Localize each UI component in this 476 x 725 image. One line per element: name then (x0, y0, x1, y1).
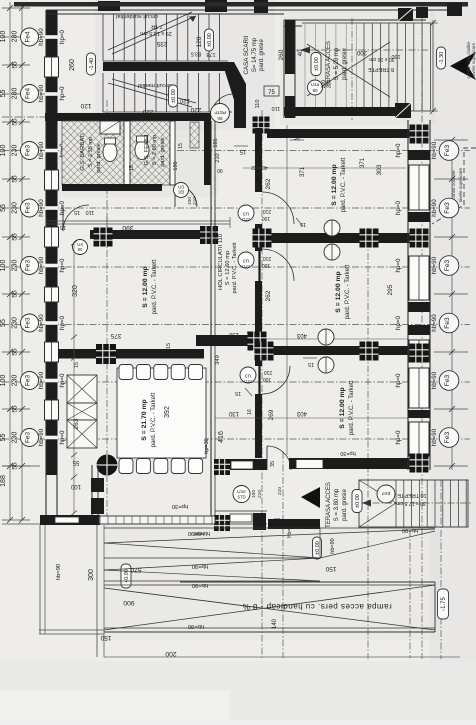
svg-text:80: 80 (78, 247, 83, 252)
svg-text:262: 262 (265, 178, 272, 189)
svg-text:pard. gresie: pard. gresie (342, 47, 348, 79)
svg-text:1/B: 1/B (178, 190, 184, 195)
svg-text:55: 55 (12, 233, 19, 241)
svg-text:15: 15 (239, 148, 246, 154)
svg-text:Fe3: Fe3 (25, 260, 32, 271)
svg-text:570: 570 (130, 566, 141, 573)
svg-text:262: 262 (265, 290, 272, 301)
svg-text:E07: E07 (381, 490, 390, 496)
svg-text:210: 210 (327, 80, 333, 89)
svg-text:16: 16 (247, 331, 253, 337)
svg-text:S = 12.60 mp: S = 12.60 mp (225, 251, 231, 286)
svg-text:Fe3: Fe3 (444, 374, 451, 386)
svg-text:55: 55 (0, 90, 7, 98)
svg-text:8 TREPTE: 8 TREPTE (368, 66, 395, 72)
svg-text:U1a: U1a (311, 82, 320, 87)
svg-text:hp=0: hp=0 (395, 143, 402, 157)
svg-text:S = 12.00 mp: S = 12.00 mp (142, 266, 149, 307)
svg-text:110: 110 (272, 105, 281, 111)
svg-text:230: 230 (12, 317, 19, 329)
svg-text:10 TREPTE: 10 TREPTE (397, 492, 427, 498)
svg-text:S = 12.00 mp: S = 12.00 mp (331, 164, 338, 205)
svg-text:181: 181 (213, 138, 219, 147)
svg-text:S = 5.20 mp: S = 5.20 mp (334, 47, 340, 80)
svg-text:15: 15 (178, 143, 184, 149)
svg-text:hb=90: hb=90 (38, 199, 45, 217)
svg-text:hp=0: hp=0 (395, 315, 402, 329)
svg-text:100: 100 (263, 376, 272, 382)
svg-text:±0.00: ±0.00 (171, 89, 177, 103)
svg-text:178: 178 (206, 51, 215, 57)
svg-text:±0.00: ±0.00 (314, 57, 320, 71)
svg-text:55: 55 (0, 204, 7, 212)
svg-text:30 x 16 cm: 30 x 16 cm (369, 56, 394, 62)
svg-text:hp=0: hp=0 (59, 373, 66, 387)
svg-text:130: 130 (228, 410, 239, 416)
svg-text:S = 12.00 mp: S = 12.00 mp (339, 387, 346, 428)
svg-text:S = 2.80 mp: S = 2.80 mp (152, 135, 158, 165)
svg-text:pard. P.V.C. - Tarkett: pard. P.V.C. - Tarkett (345, 264, 351, 319)
svg-text:349: 349 (215, 355, 221, 365)
svg-text:150: 150 (325, 565, 336, 572)
svg-text:U3: U3 (243, 211, 249, 217)
svg-text:120: 120 (80, 102, 91, 109)
svg-text:S = 12.00 mp: S = 12.00 mp (335, 271, 342, 312)
svg-text:190: 190 (173, 161, 179, 170)
svg-text:hb=90: hb=90 (38, 28, 45, 46)
svg-text:G.S. BARBATI: G.S. BARBATI (80, 133, 86, 171)
svg-text:83.5: 83.5 (191, 51, 202, 57)
svg-text:55: 55 (12, 61, 19, 69)
svg-text:390: 390 (122, 224, 134, 231)
svg-text:55: 55 (12, 348, 19, 356)
svg-text:hp=0: hp=0 (59, 200, 66, 214)
svg-text:210: 210 (215, 153, 221, 162)
svg-text:±0.00: ±0.00 (355, 494, 361, 508)
svg-text:90: 90 (312, 88, 318, 93)
svg-text:392: 392 (164, 406, 171, 418)
svg-text:Fe3: Fe3 (25, 145, 32, 156)
svg-text:nivele superioare: nivele superioare (458, 167, 463, 202)
svg-text:371: 371 (360, 157, 366, 168)
svg-text:55: 55 (12, 118, 19, 126)
svg-text:S = 3.80 mp: S = 3.80 mp (334, 488, 340, 521)
svg-text:100: 100 (262, 215, 271, 221)
svg-text:±0.00: ±0.00 (207, 33, 213, 47)
svg-text:STD: STD (237, 495, 245, 500)
svg-text:hp=0: hp=0 (59, 315, 66, 329)
svg-text:416: 416 (218, 431, 225, 443)
svg-text:hb=90: hb=90 (194, 530, 210, 536)
svg-text:15: 15 (166, 343, 172, 349)
svg-text:hp=0: hp=0 (59, 258, 66, 272)
svg-text:900: 900 (123, 599, 135, 606)
svg-text:hb=90: hb=90 (56, 564, 62, 580)
svg-text:375: 375 (110, 332, 121, 339)
svg-text:200: 200 (165, 650, 177, 657)
svg-text:circuit rezidential: circuit rezidential (116, 13, 158, 19)
svg-text:100: 100 (0, 260, 7, 272)
svg-text:260: 260 (69, 59, 76, 71)
svg-text:Fe4: Fe4 (25, 88, 32, 99)
svg-text:CASA SCARII: CASA SCARII (243, 35, 250, 74)
svg-text:hp=0: hp=0 (395, 258, 402, 272)
svg-text:100: 100 (0, 145, 7, 157)
svg-text:pard. P.V.C. - Tarkett: pard. P.V.C. - Tarkett (341, 157, 347, 212)
svg-text:hb=90: hb=90 (38, 314, 45, 332)
svg-text:55: 55 (0, 434, 7, 442)
svg-text:pard. gresie: pard. gresie (259, 38, 265, 70)
svg-text:-1.30: -1.30 (439, 52, 445, 65)
svg-text:S = 2.35 mp: S = 2.35 mp (88, 137, 94, 167)
svg-text:30 x 17.5 cm: 30 x 17.5 cm (396, 500, 426, 506)
svg-text:110: 110 (255, 100, 261, 109)
svg-text:hp=0: hp=0 (59, 29, 66, 43)
svg-text:371: 371 (300, 166, 306, 177)
svg-text:100: 100 (251, 490, 257, 498)
svg-text:pard. gresie: pard. gresie (342, 488, 348, 520)
svg-text:75: 75 (268, 90, 275, 96)
svg-text:100: 100 (0, 375, 7, 387)
svg-text:280: 280 (12, 88, 19, 100)
svg-text:210: 210 (263, 208, 272, 214)
svg-text:hb=90: hb=90 (38, 428, 45, 446)
svg-text:pard. gresie: pard. gresie (96, 143, 102, 173)
svg-text:hb=90: hb=90 (431, 256, 438, 274)
svg-text:210: 210 (257, 490, 263, 498)
svg-text:Fe3: Fe3 (444, 431, 451, 443)
svg-text:nivele superioare: nivele superioare (471, 42, 476, 77)
svg-text:STD: STD (244, 379, 252, 384)
svg-text:hb=90: hb=90 (431, 141, 438, 159)
svg-text:29 x 16.5 cm: 29 x 16.5 cm (140, 30, 172, 36)
svg-text:hb=90: hb=90 (431, 314, 438, 332)
svg-text:U3: U3 (245, 373, 251, 379)
svg-text:120: 120 (196, 36, 203, 47)
svg-text:Fe3: Fe3 (444, 202, 451, 214)
svg-text:40: 40 (262, 164, 268, 170)
svg-text:hb=90: hb=90 (431, 428, 438, 446)
svg-text:300: 300 (88, 569, 95, 581)
svg-text:hb=90: hb=90 (38, 256, 45, 274)
svg-text:Fe3: Fe3 (25, 432, 32, 443)
svg-text:hb=90: hb=90 (188, 623, 204, 629)
svg-text:pard. P.V.C. - Tarkett: pard. P.V.C. - Tarkett (232, 242, 238, 293)
svg-text:210: 210 (263, 255, 272, 261)
svg-text:210: 210 (192, 197, 198, 205)
svg-text:403: 403 (296, 332, 307, 338)
svg-text:hb=90: hb=90 (38, 141, 45, 159)
svg-text:15: 15 (129, 165, 135, 171)
svg-text:hb=90: hb=90 (38, 84, 45, 102)
svg-text:120: 120 (179, 97, 190, 103)
svg-text:TERASA ACCES: TERASA ACCES (326, 482, 332, 528)
svg-text:269: 269 (268, 409, 275, 420)
svg-text:STD: STD (242, 264, 250, 269)
svg-text:210: 210 (277, 487, 283, 495)
svg-text:55: 55 (72, 459, 79, 465)
svg-text:90: 90 (217, 167, 223, 173)
svg-text:230: 230 (12, 202, 19, 214)
svg-text:HOL CIRCULATII 110: HOL CIRCULATII 110 (218, 234, 224, 290)
svg-text:hp=30: hp=30 (204, 438, 210, 453)
svg-text:circuit medial: circuit medial (138, 82, 172, 88)
svg-text:hp=0: hp=0 (59, 430, 66, 444)
svg-text:35: 35 (270, 461, 276, 467)
svg-text:Fe3: Fe3 (25, 317, 32, 328)
svg-text:90: 90 (217, 116, 222, 121)
svg-text:hb=90: hb=90 (431, 199, 438, 217)
svg-text:pard. gresie: pard. gresie (160, 137, 166, 167)
svg-text:100: 100 (0, 31, 7, 43)
svg-text:S = 21.70 mp: S = 21.70 mp (141, 399, 148, 440)
svg-text:140: 140 (272, 618, 278, 629)
svg-text:320: 320 (72, 285, 79, 297)
svg-text:260: 260 (278, 49, 285, 60)
svg-text:230: 230 (12, 375, 19, 387)
svg-text:Fe3: Fe3 (25, 202, 32, 213)
svg-text:55: 55 (12, 290, 19, 298)
svg-text:230: 230 (12, 145, 19, 157)
svg-text:Fe3: Fe3 (444, 144, 451, 156)
svg-text:hp=0: hp=0 (59, 86, 66, 100)
svg-text:295: 295 (387, 284, 394, 295)
svg-text:hb=90: hb=90 (431, 371, 438, 389)
svg-text:15: 15 (74, 362, 80, 368)
svg-text:-1.75: -1.75 (441, 597, 447, 611)
svg-text:hb=90: hb=90 (330, 538, 336, 553)
svg-text:PETF: PETF (214, 110, 226, 115)
svg-text:130: 130 (228, 331, 239, 337)
svg-text:hp=0: hp=0 (395, 373, 402, 387)
svg-text:303: 303 (376, 164, 383, 175)
svg-text:U1e: U1e (237, 489, 246, 494)
svg-text:pard. P.V.C. - Tarkett: pard. P.V.C. - Tarkett (349, 380, 355, 435)
svg-text:100: 100 (262, 262, 271, 268)
svg-text:rampa acces pers. cu handicap: rampa acces pers. cu handicap - 8 % (242, 602, 392, 611)
svg-text:220: 220 (190, 106, 201, 113)
svg-text:15: 15 (308, 361, 314, 367)
svg-text:15: 15 (235, 390, 241, 396)
svg-text:-1.40: -1.40 (89, 58, 95, 71)
svg-text:Fe4: Fe4 (25, 31, 32, 42)
svg-text:7 TR: 7 TR (151, 23, 163, 29)
svg-text:25: 25 (293, 133, 300, 139)
svg-text:15: 15 (74, 209, 80, 215)
svg-text:hp=0: hp=0 (395, 430, 402, 444)
svg-text:403: 403 (296, 410, 307, 416)
svg-text:230: 230 (12, 260, 19, 272)
svg-text:STD: STD (242, 217, 250, 222)
svg-text:U3: U3 (243, 258, 249, 264)
svg-text:pard. P.V.C. - Tarkett: pard. P.V.C. - Tarkett (151, 392, 157, 447)
svg-text:235: 235 (156, 40, 167, 47)
svg-text:280: 280 (12, 31, 19, 43)
svg-text:210: 210 (264, 369, 273, 375)
svg-text:hp=30: hp=30 (340, 450, 355, 456)
svg-text:55: 55 (12, 405, 19, 413)
svg-text:Fe3: Fe3 (444, 317, 451, 329)
svg-text:hb=90: hb=90 (192, 563, 208, 569)
svg-text:hb=90: hb=90 (38, 371, 45, 389)
svg-text:S= 14.75 mp: S= 14.75 mp (252, 37, 258, 72)
svg-text:hp=30: hp=30 (172, 503, 188, 509)
svg-text:100: 100 (70, 483, 81, 489)
svg-text:pard. P.V.C. - Tarkett: pard. P.V.C. - Tarkett (152, 259, 158, 314)
svg-text:188: 188 (0, 475, 7, 487)
svg-text:G.S. FEMEI: G.S. FEMEI (144, 134, 150, 165)
svg-text:Fe3: Fe3 (444, 259, 451, 271)
svg-text:55: 55 (0, 319, 7, 327)
svg-text:150: 150 (391, 53, 400, 59)
svg-text:230: 230 (12, 432, 19, 444)
svg-text:16: 16 (247, 409, 253, 415)
svg-text:hp=0: hp=0 (395, 200, 402, 214)
svg-text:110: 110 (86, 209, 95, 215)
svg-text:Fe3: Fe3 (25, 375, 32, 386)
svg-text:55: 55 (12, 175, 19, 183)
svg-text:150: 150 (100, 634, 111, 641)
